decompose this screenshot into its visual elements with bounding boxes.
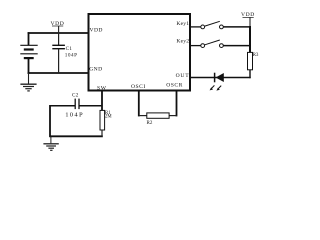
wire right rail	[249, 26, 251, 53]
wire OSCR pin down	[176, 91, 178, 117]
svg-text:OUT: OUT	[176, 73, 190, 79]
wire Key1 pin to switch	[191, 26, 201, 28]
wire loop left side	[49, 105, 51, 137]
svg-text:104P: 104P	[65, 53, 78, 59]
LED D1	[210, 73, 224, 91]
resistor R2	[147, 113, 169, 118]
wire R1 bottom lead	[101, 130, 103, 136]
wire battery top lead	[28, 32, 30, 45]
svg-text:C2: C2	[72, 93, 79, 99]
resistor R1	[100, 110, 105, 130]
svg-text:Key2: Key2	[176, 38, 189, 44]
svg-text:OSCI: OSCI	[131, 84, 146, 90]
svg-text:2M: 2M	[105, 114, 112, 119]
svg-text:R3: R3	[253, 53, 259, 58]
switch Key1	[201, 21, 224, 29]
wire Key2 pin to switch	[191, 45, 201, 47]
switch Key2	[201, 40, 224, 47]
wire switch1 to VDD rail	[223, 26, 251, 28]
wire loop top right segment (C2 to SW wire)	[79, 105, 103, 107]
wire OUT to LED to rail	[191, 77, 251, 79]
wire VDD rail (battery to VDD pin)	[28, 32, 89, 34]
wire R2 right lead	[169, 115, 176, 117]
svg-text:Key1: Key1	[176, 21, 189, 27]
svg-text:GND: GND	[89, 66, 102, 72]
ground (power earth, left)	[20, 84, 36, 91]
battery BT1	[20, 45, 37, 58]
svg-text:R2: R2	[147, 121, 153, 126]
capacitor C2	[75, 99, 79, 110]
capacitor C1	[52, 45, 65, 48]
wire R3 bottom lead	[249, 70, 251, 78]
wire ground stub	[28, 73, 30, 84]
wire battery bottom lead	[28, 58, 30, 74]
wire R2 left lead	[139, 115, 147, 117]
wire switch2 to VDD rail	[223, 45, 251, 47]
wire loop bottom	[50, 135, 103, 137]
wire loop top left segment (SW junction to C2)	[50, 105, 76, 107]
wire VDD stub (label to rail)	[58, 26, 60, 33]
wire SW pin down	[101, 91, 103, 111]
ground (signal ground, bottom-left corner)	[43, 144, 58, 151]
wire C1 top lead	[58, 33, 60, 45]
svg-text:C1: C1	[66, 46, 73, 52]
wire VDD stub (right)	[249, 17, 251, 27]
svg-text:104P: 104P	[65, 112, 84, 119]
svg-text:OSCR: OSCR	[166, 83, 183, 89]
wire GND rail (battery to GND pin)	[28, 72, 89, 74]
svg-text:VDD: VDD	[90, 28, 103, 34]
wire ground stub 2	[50, 136, 52, 143]
resistor R3	[248, 52, 253, 69]
wire C1 bottom lead	[58, 49, 60, 73]
wire OSCI pin down	[138, 91, 140, 117]
op-amp U1 (IC body)	[89, 14, 191, 91]
